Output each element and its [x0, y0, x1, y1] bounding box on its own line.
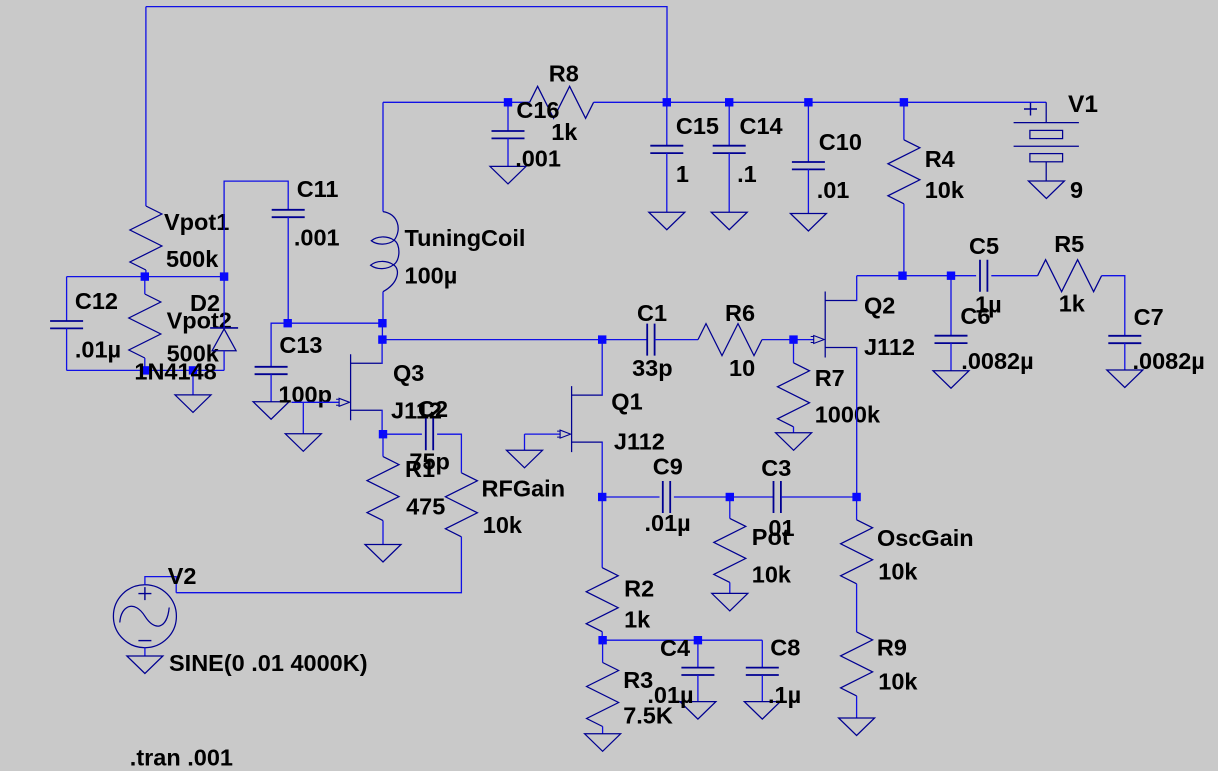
ground R3 — [585, 734, 621, 752]
svg-text:C7: C7 — [1134, 304, 1164, 330]
svg-text:OscGain: OscGain — [877, 525, 974, 551]
svg-text:C2: C2 — [418, 396, 448, 422]
node R7 top junction — [789, 335, 797, 343]
wire TuningCoil top lead — [382, 102, 384, 211]
wire to TuningCoil bottom — [288, 322, 383, 324]
svg-text:R2: R2 — [624, 575, 654, 601]
ground R9 — [839, 718, 875, 736]
svg-text:R5: R5 — [1054, 231, 1084, 257]
svg-text:100µ: 100µ — [405, 262, 458, 288]
wire mid bus to C1 — [382, 339, 647, 341]
wire D2 cathode lead — [223, 277, 225, 328]
ground R7 — [776, 433, 812, 451]
wire R4 top lead — [903, 102, 905, 140]
capacitor C13 — [255, 367, 288, 374]
capacitor C1 — [647, 324, 654, 356]
svg-text:C12: C12 — [75, 288, 118, 314]
svg-text:R9: R9 — [877, 635, 907, 661]
svg-text:10k: 10k — [878, 559, 918, 585]
node Q3 drain junction — [378, 335, 386, 343]
ground C4 — [680, 702, 716, 720]
node ground stem junction — [189, 366, 197, 374]
wire C16 top lead — [507, 102, 509, 131]
svg-text:Q1: Q1 — [611, 389, 642, 415]
svg-text:J112: J112 — [614, 429, 665, 455]
svg-text:C9: C9 — [653, 453, 683, 479]
svg-text:475: 475 — [406, 494, 445, 520]
wire R1 bottom lead — [382, 521, 384, 545]
wire output bus — [857, 275, 976, 277]
svg-text:C8: C8 — [770, 635, 800, 661]
wire Q3 drain up — [381, 340, 384, 364]
svg-text:1k: 1k — [1059, 291, 1086, 317]
wire C5 to R5 — [991, 275, 1037, 277]
wire R7 top lead — [793, 340, 795, 363]
ground Pot — [712, 593, 748, 611]
node C6 junction — [947, 272, 955, 280]
wire C11 top lead — [224, 181, 288, 277]
capacitor C5 — [980, 260, 987, 292]
ground pot block — [175, 395, 211, 413]
capacitor C12 — [50, 321, 83, 328]
wire C10 top lead — [807, 102, 809, 162]
svg-text:C6: C6 — [960, 303, 990, 329]
svg-text:.1: .1 — [737, 161, 757, 187]
wire R1 top lead — [382, 434, 384, 456]
node Q1 drain junction — [598, 335, 606, 343]
wire OscGain top lead — [856, 497, 858, 520]
transistor Q3 J112 — [336, 354, 382, 420]
wire Vpot1 bottom lead — [145, 270, 147, 277]
capacitor C8 — [746, 668, 779, 675]
voltage source V1 battery — [1014, 102, 1079, 181]
capacitor C16 — [492, 131, 525, 138]
svg-text:500k: 500k — [166, 246, 219, 272]
node C11/D2 junction — [220, 272, 228, 280]
wire R4 bottom lead — [903, 204, 905, 276]
svg-text:R8: R8 — [549, 60, 579, 86]
svg-text:.01µ: .01µ — [647, 682, 693, 708]
capacitor C9 — [663, 481, 670, 513]
capacitor C4 — [681, 668, 714, 675]
resistor R8 — [530, 86, 594, 118]
wire to C3 — [730, 496, 773, 498]
svg-text:.001: .001 — [294, 224, 340, 250]
wire Vpot1 top lead — [145, 7, 147, 206]
wire C3 to OscGain node — [781, 496, 856, 498]
wire Q1 gate ground stem — [524, 434, 526, 450]
capacitor C10 — [792, 162, 825, 169]
svg-text:1k: 1k — [551, 119, 578, 145]
node Vpot2 bottom junction — [141, 366, 149, 374]
wire R6 to Q2 gate — [762, 339, 814, 341]
node C10 junction — [804, 98, 812, 106]
wire Q1 source down — [601, 442, 603, 497]
wire bottom of pot block — [67, 369, 225, 371]
ground V2 — [127, 656, 163, 674]
wire R3 top lead — [602, 640, 604, 662]
wire R5 to C7 — [1102, 276, 1125, 336]
svg-text:R1: R1 — [405, 456, 435, 482]
svg-text:C3: C3 — [761, 455, 791, 481]
wire OscGain to R9 — [856, 584, 858, 632]
wire R8 right to V1 — [594, 101, 1047, 103]
capacitor C3 — [774, 481, 781, 513]
svg-text:R4: R4 — [925, 146, 955, 172]
wire Q3 source down — [381, 410, 384, 434]
wire C13 top lead — [271, 323, 288, 367]
node C14 junction — [725, 98, 733, 106]
wire C4 bottom lead — [697, 675, 699, 702]
wire C2 to RFGain — [437, 434, 461, 473]
wire Q3 gate — [291, 401, 338, 403]
resistor RFGain — [445, 473, 477, 537]
transistor Q2 J112 — [811, 292, 857, 358]
svg-text:C10: C10 — [819, 129, 862, 155]
ground C13 — [253, 402, 289, 420]
svg-text:V2: V2 — [168, 563, 197, 589]
wire C14 top lead — [728, 102, 730, 145]
resistor R7 — [778, 363, 810, 427]
diode D2 1N4148 — [210, 328, 238, 351]
ground C16 — [490, 166, 526, 184]
wire bus to R8 left — [383, 101, 530, 103]
node OscGain junction — [852, 493, 860, 501]
resistor OscGain — [841, 520, 873, 584]
svg-text:10k: 10k — [925, 177, 965, 203]
wire C15 top lead — [666, 102, 668, 145]
wire Q1 gate — [525, 433, 561, 435]
svg-text:.tran .001: .tran .001 — [130, 745, 233, 771]
transistor Q1 J112 — [557, 386, 603, 452]
capacitor C2 — [426, 418, 433, 450]
capacitor C7 — [1108, 336, 1141, 343]
svg-text:C4: C4 — [660, 635, 690, 661]
wire C6 bottom lead — [950, 343, 952, 371]
ground V1 — [1028, 181, 1064, 199]
svg-text:33p: 33p — [632, 355, 673, 381]
svg-text:.1µ: .1µ — [768, 682, 801, 708]
wire C12 bottom lead — [66, 328, 68, 370]
wire R3/C4/C8 bus — [603, 639, 763, 641]
resistor Vpot2 — [129, 294, 161, 358]
ground C8 — [744, 702, 780, 720]
svg-text:C11: C11 — [297, 176, 339, 202]
svg-text:SINE(0 .01 4000K): SINE(0 .01 4000K) — [169, 650, 368, 676]
node Q1 source junction — [598, 493, 606, 501]
wire C7 bottom lead — [1124, 343, 1126, 370]
svg-text:1000k: 1000k — [815, 401, 881, 427]
svg-text:10k: 10k — [752, 561, 792, 587]
svg-text:RFGain: RFGain — [482, 476, 566, 502]
svg-text:C15: C15 — [676, 113, 719, 139]
svg-text:C14: C14 — [740, 113, 783, 139]
wire Pot top lead — [729, 497, 731, 518]
wire C4 top lead — [697, 640, 699, 667]
wire Q2 drain up — [855, 276, 858, 301]
svg-text:1N4148: 1N4148 — [134, 358, 216, 384]
wire R3 bottom lead — [602, 727, 604, 734]
node Vpot1/Vpot2 junction — [141, 272, 149, 280]
resistor R3 — [587, 663, 619, 727]
wire ground stem — [192, 370, 194, 395]
svg-text:C13: C13 — [279, 332, 322, 358]
wire V2 plus to RFGain wire — [145, 577, 176, 593]
wire R2 bottom lead — [601, 632, 603, 641]
wire node A horizontal — [67, 276, 225, 278]
svg-text:.01µ: .01µ — [75, 337, 121, 363]
node R3 junction — [598, 636, 606, 644]
wire TuningCoil bottom lead — [382, 292, 384, 324]
voltage source V2 SINE — [113, 585, 176, 648]
wire C15 bottom lead — [666, 153, 668, 212]
svg-text:9: 9 — [1070, 177, 1083, 203]
ground C14 — [711, 212, 747, 230]
resistor R4 — [888, 140, 920, 204]
node C11/C13 junction — [284, 319, 292, 327]
svg-text:1k: 1k — [624, 607, 651, 633]
node R4 bottom junction — [898, 272, 906, 280]
ground C15 — [649, 212, 685, 230]
svg-text:C16: C16 — [516, 97, 559, 123]
resistor R1 — [367, 457, 399, 521]
wire R9 bottom lead — [856, 696, 858, 718]
ground R1 — [365, 545, 401, 563]
wire Pot bottom lead — [729, 582, 731, 593]
svg-text:.0082µ: .0082µ — [1133, 348, 1205, 374]
ground C10 — [790, 214, 826, 232]
inductor TuningCoil — [371, 212, 399, 292]
svg-text:.01µ: .01µ — [645, 510, 691, 536]
wire C10 bottom lead — [807, 169, 809, 213]
wire C8 bottom lead — [761, 675, 763, 702]
resistor Vpot1 — [130, 206, 162, 270]
wire C12 top lead — [66, 277, 68, 321]
svg-text:TuningCoil: TuningCoil — [405, 225, 526, 251]
wire C13 bottom lead — [270, 374, 272, 402]
wire C1 to R6 — [655, 339, 698, 341]
capacitor C6 — [935, 336, 968, 343]
node C4 junction — [694, 636, 702, 644]
ground C6 — [933, 371, 969, 389]
wire C6 top lead — [950, 276, 952, 336]
svg-text:.01: .01 — [817, 177, 850, 203]
wire C14 bottom lead — [728, 153, 730, 212]
capacitor C14 — [713, 146, 746, 153]
ground Q1 gate — [507, 450, 543, 468]
svg-text:Pot: Pot — [752, 524, 790, 550]
node Pot junction — [726, 493, 734, 501]
svg-text:Q3: Q3 — [393, 360, 424, 386]
node C16/R8 junction — [504, 98, 512, 106]
ground C7 — [1107, 370, 1143, 388]
svg-text:C1: C1 — [637, 300, 667, 326]
wire Vpot2 top lead — [144, 277, 146, 294]
svg-text:10k: 10k — [483, 512, 523, 538]
svg-text:R7: R7 — [815, 365, 845, 391]
node TuningCoil bottom junction — [378, 319, 386, 327]
wire Q3 gate ground stem — [302, 402, 304, 434]
ground Q3 gate — [285, 434, 321, 452]
wire bus to C9 — [602, 496, 659, 498]
wire C9 to Pot node — [674, 496, 730, 498]
wire top feedback — [146, 7, 667, 103]
wire C8 top lead — [761, 640, 763, 667]
wire R2 top lead — [601, 497, 603, 568]
wire R7 bottom lead — [793, 427, 795, 433]
node R4 top junction — [900, 98, 908, 106]
resistor Pot — [714, 518, 746, 582]
wire Q1 drain up — [601, 340, 603, 396]
svg-text:.001: .001 — [515, 146, 561, 172]
resistor R6 — [698, 324, 762, 356]
wire C16 bottom lead — [507, 138, 509, 166]
svg-text:R6: R6 — [725, 300, 755, 326]
node Q3 source junction — [379, 430, 387, 438]
capacitor C15 — [650, 146, 683, 153]
svg-text:J112: J112 — [864, 334, 915, 360]
svg-text:C5: C5 — [969, 233, 999, 259]
svg-text:V1: V1 — [1068, 91, 1098, 118]
wire C11 bottom lead — [287, 217, 289, 323]
svg-text:10k: 10k — [878, 668, 918, 694]
wire Vpot2 bottom lead — [144, 358, 146, 370]
wire D2 anode lead — [223, 351, 225, 371]
svg-text:.0082µ: .0082µ — [961, 348, 1033, 374]
wire to C2 left — [383, 433, 422, 435]
svg-text:10: 10 — [729, 355, 755, 381]
wire down to Q3 drain node — [381, 323, 383, 339]
svg-text:D2: D2 — [190, 290, 220, 316]
wire RFGain bottom to V2 — [176, 537, 461, 593]
svg-text:100p: 100p — [278, 382, 332, 408]
resistor R9 — [841, 632, 873, 696]
resistor R2 — [586, 568, 618, 632]
capacitor C11 — [272, 210, 305, 217]
wire V2 minus lead — [144, 648, 146, 656]
svg-text:Vpot1: Vpot1 — [164, 209, 229, 235]
wire Q2 source down — [855, 348, 858, 498]
svg-text:1: 1 — [676, 161, 689, 187]
resistor R5 — [1038, 260, 1102, 292]
svg-text:Q2: Q2 — [864, 292, 895, 318]
node C15 junction — [663, 98, 671, 106]
